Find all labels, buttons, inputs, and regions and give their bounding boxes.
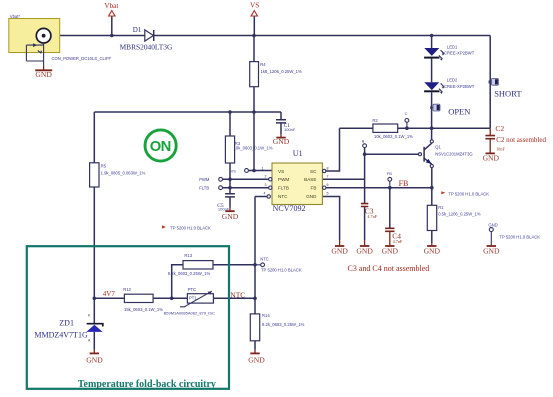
svg-text:PWM: PWM xyxy=(199,177,210,182)
svg-text:FB: FB xyxy=(399,179,409,188)
svg-text:100nF: 100nF xyxy=(218,206,230,211)
svg-text:GND: GND xyxy=(424,247,441,256)
svg-text:GND: GND xyxy=(86,356,103,365)
svg-text:10k_0603_0.1W_1%: 10k_0603_0.1W_1% xyxy=(374,134,413,139)
svg-text:GND: GND xyxy=(483,153,500,162)
svg-text:6: 6 xyxy=(327,183,329,187)
svg-text:C2 not assembled: C2 not assembled xyxy=(496,136,546,144)
svg-text:4.7nF: 4.7nF xyxy=(393,239,403,244)
svg-text:LED1: LED1 xyxy=(447,44,458,49)
svg-text:1.9k_0805_0.063W_1%: 1.9k_0805_0.063W_1% xyxy=(101,171,146,176)
svg-text:B: B xyxy=(362,138,365,143)
svg-text:FLTB: FLTB xyxy=(199,185,209,190)
svg-text:D1: D1 xyxy=(133,26,142,34)
svg-text:0.5k_1206_0.25W_1%: 0.5k_1206_0.25W_1% xyxy=(438,212,481,217)
svg-text:GND: GND xyxy=(483,247,500,256)
svg-text:FB: FB xyxy=(387,171,392,176)
svg-text:8.2k_0603_0.25W_1%: 8.2k_0603_0.25W_1% xyxy=(168,271,211,276)
svg-text:Temperature fold-back circuitr: Temperature fold-back circuitry xyxy=(78,379,216,390)
svg-text:C3 and C4 not assembled: C3 and C4 not assembled xyxy=(348,264,430,273)
svg-text:NTC: NTC xyxy=(260,256,269,261)
svg-text:B59M1A0085A062_870_ISC: B59M1A0085A062_870_ISC xyxy=(164,310,215,315)
svg-text:FB: FB xyxy=(311,186,317,191)
svg-text:R13: R13 xyxy=(184,253,192,258)
svg-text:NTC: NTC xyxy=(230,290,245,299)
svg-text:MBRS2040LT3G: MBRS2040LT3G xyxy=(120,42,173,51)
svg-text:FLTB: FLTB xyxy=(278,186,289,191)
svg-text:4: 4 xyxy=(264,191,266,195)
svg-text:100nF: 100nF xyxy=(284,127,296,132)
svg-text:4V7: 4V7 xyxy=(103,290,116,298)
svg-text:R5: R5 xyxy=(101,163,107,168)
svg-text:GND: GND xyxy=(382,247,399,256)
svg-text:3: 3 xyxy=(265,183,267,187)
svg-text:10nF: 10nF xyxy=(496,147,505,152)
svg-text:7: 7 xyxy=(327,175,329,179)
svg-text:C: C xyxy=(405,111,408,116)
svg-text:NSV1C201MZ4T3G: NSV1C201MZ4T3G xyxy=(435,152,472,157)
svg-text:TP 5200 H1.0 BLACK: TP 5200 H1.0 BLACK xyxy=(448,191,489,196)
svg-text:NTC: NTC xyxy=(278,194,288,199)
svg-text:VS: VS xyxy=(231,168,237,173)
svg-text:SC: SC xyxy=(310,169,317,174)
svg-text:MMDZ4V7T1G: MMDZ4V7T1G xyxy=(34,330,88,339)
svg-text:SHORT: SHORT xyxy=(494,89,522,99)
svg-text:1k8_1206_0.25W_1%: 1k8_1206_0.25W_1% xyxy=(261,69,302,74)
svg-text:8: 8 xyxy=(327,166,329,170)
svg-text:PTC: PTC xyxy=(188,287,196,292)
svg-text:NCV7092: NCV7092 xyxy=(273,204,306,213)
svg-text:LED2: LED2 xyxy=(447,77,458,82)
svg-text:GND: GND xyxy=(331,247,348,256)
svg-text:5: 5 xyxy=(327,191,329,195)
svg-text:R2: R2 xyxy=(372,118,378,123)
svg-text:TP 5200 H1.0 BLACK: TP 5200 H1.0 BLACK xyxy=(499,235,540,240)
svg-text:GND: GND xyxy=(488,222,497,227)
svg-text:VS: VS xyxy=(278,169,284,174)
svg-text:VS: VS xyxy=(250,2,259,10)
svg-text:TP 5200 H1.0 BLACK: TP 5200 H1.0 BLACK xyxy=(170,226,211,231)
svg-text:BASE: BASE xyxy=(304,177,316,182)
svg-text:4.7nF: 4.7nF xyxy=(367,214,377,219)
svg-text:GND: GND xyxy=(356,247,373,256)
svg-text:CREE-XP2BWT: CREE-XP2BWT xyxy=(444,51,475,56)
svg-text:CREE-XP2BWT: CREE-XP2BWT xyxy=(444,84,475,89)
svg-text:ON: ON xyxy=(150,139,171,155)
svg-text:R14: R14 xyxy=(262,313,270,318)
svg-text:GND: GND xyxy=(222,212,239,221)
svg-text:GND: GND xyxy=(273,137,290,146)
svg-text:GND: GND xyxy=(306,194,317,199)
svg-text:R4: R4 xyxy=(260,62,266,67)
svg-text:2: 2 xyxy=(265,175,267,179)
svg-text:U1: U1 xyxy=(293,149,303,158)
svg-text:8.2k_0603_0.25W_1%: 8.2k_0603_0.25W_1% xyxy=(262,322,305,327)
svg-text:Vbat*: Vbat* xyxy=(10,14,21,19)
svg-text:Q1: Q1 xyxy=(435,145,441,150)
svg-text:C2: C2 xyxy=(495,124,504,133)
svg-text:CON_POWER_DC10LS_CLIFF: CON_POWER_DC10LS_CLIFF xyxy=(52,56,112,61)
svg-text:1: 1 xyxy=(262,166,264,170)
svg-text:PWM: PWM xyxy=(278,177,289,182)
svg-text:R1: R1 xyxy=(438,205,444,210)
svg-text:ZD1: ZD1 xyxy=(59,319,74,328)
svg-text:PT1: PT1 xyxy=(189,296,197,301)
svg-text:OPEN: OPEN xyxy=(448,107,470,117)
svg-text:10k_0603_0.1W_1%: 10k_0603_0.1W_1% xyxy=(234,145,273,150)
svg-text:Vbat: Vbat xyxy=(104,2,118,10)
svg-text:R12: R12 xyxy=(123,287,131,292)
svg-text:GND: GND xyxy=(248,356,265,365)
svg-text:15k_0603_0.1W_1%: 15k_0603_0.1W_1% xyxy=(124,307,163,312)
svg-text:TP 5200 H1.0 BLACK: TP 5200 H1.0 BLACK xyxy=(261,267,302,272)
svg-text:GND: GND xyxy=(35,70,52,79)
